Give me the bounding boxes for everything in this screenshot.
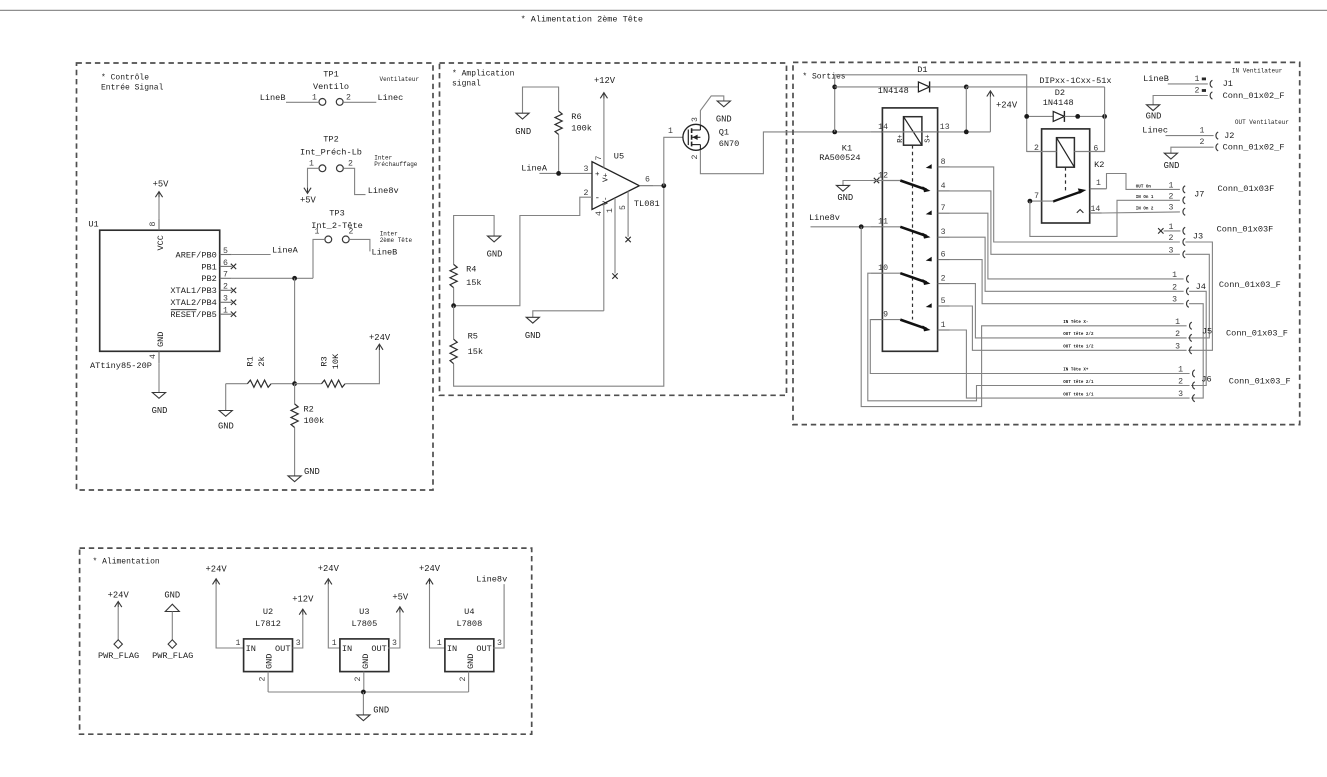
- K2 pin1: [1090, 188, 1107, 190]
- svg-text:IN: IN: [447, 644, 457, 654]
- svg-text:TP2: TP2: [323, 135, 338, 145]
- ground (Alimentation): [357, 715, 370, 721]
- resistor R2 100k: [294, 384, 296, 404]
- svg-text:+24V: +24V: [318, 564, 340, 574]
- svg-text:Line8v: Line8v: [476, 575, 507, 585]
- svg-text:GND: GND: [373, 705, 389, 715]
- svg-text:OUT tête 2/2: OUT tête 2/2: [1063, 332, 1094, 337]
- svg-text:2: 2: [1175, 330, 1180, 339]
- svg-text:8: 8: [149, 222, 158, 227]
- svg-text:11: 11: [878, 218, 888, 227]
- svg-text:2: 2: [1034, 144, 1039, 153]
- svg-text:6: 6: [223, 259, 228, 268]
- svg-text:D2: D2: [1055, 88, 1065, 98]
- svg-text:1: 1: [668, 127, 673, 136]
- svg-text:3: 3: [1175, 342, 1180, 351]
- U1 pin 3 XTAL2/PB4: [220, 301, 232, 303]
- top rail to K2 coil: [835, 75, 1042, 152]
- wire +24V to U2 IN: [216, 584, 244, 648]
- svg-text:1: 1: [941, 321, 946, 330]
- svg-text:OUT tête 2/1: OUT tête 2/1: [1063, 380, 1094, 385]
- wire K2 pin1 to J7 pin1: [1107, 174, 1180, 190]
- wire K1 pin4 to J3 pin3: [950, 191, 1180, 254]
- wire output to Q1 gate: [664, 137, 689, 185]
- svg-text:14: 14: [878, 123, 888, 132]
- svg-text:R3: R3: [320, 356, 330, 366]
- wire +24V node down to pin13 rail: [965, 87, 967, 132]
- svg-text:GND: GND: [164, 591, 180, 601]
- svg-text:3: 3: [941, 228, 946, 237]
- svg-text:2: 2: [1169, 234, 1174, 243]
- K1 NO pin 3: [938, 236, 950, 238]
- svg-text:RESET/PB5: RESET/PB5: [170, 310, 216, 320]
- svg-text:GND: GND: [156, 332, 166, 347]
- wire U2 OUT to +12V: [293, 614, 303, 648]
- ground left of R1: [225, 384, 227, 411]
- K1 switch common pin 11: [870, 226, 882, 228]
- svg-text:K2: K2: [1094, 160, 1104, 170]
- power +24V right of R3: [376, 344, 383, 350]
- svg-text:14: 14: [1091, 205, 1101, 214]
- svg-text:1: 1: [1195, 75, 1200, 84]
- svg-text:J7: J7: [1194, 190, 1204, 200]
- svg-text:6N70: 6N70: [719, 139, 740, 149]
- wire D2 row: [966, 86, 1104, 88]
- svg-text:Linec: Linec: [378, 93, 404, 103]
- svg-text:R+: R+: [897, 134, 905, 142]
- svg-text:+24V: +24V: [369, 333, 391, 343]
- svg-text:1: 1: [437, 639, 442, 648]
- section box Sorties: [793, 62, 1300, 424]
- svg-text:J5: J5: [1202, 326, 1212, 336]
- K1 switch arm 12-4: [900, 181, 926, 190]
- transistor Q1 6N70 mosfet: [683, 124, 709, 150]
- svg-text:4: 4: [149, 354, 158, 359]
- svg-text:2: 2: [349, 228, 354, 237]
- svg-text:GND: GND: [361, 654, 371, 669]
- svg-text:3: 3: [1172, 296, 1177, 305]
- power +5V above U1: [158, 197, 160, 219]
- svg-text:GND: GND: [716, 114, 732, 124]
- wire TP2.2 to Line8v: [343, 168, 365, 194]
- svg-text:L7808: L7808: [456, 619, 482, 629]
- resistor R5 15k: [453, 306, 455, 340]
- U1 pin 2 XTAL1/PB3: [220, 289, 232, 291]
- wire PB2 down to divider: [294, 278, 296, 383]
- wire R6 to LineA: [558, 135, 560, 174]
- diode D2 1N4148: [1053, 111, 1064, 121]
- svg-text:* Amplication: * Amplication: [452, 70, 515, 79]
- junction GND rail: [361, 690, 366, 695]
- K1 switch common pin 10: [870, 272, 882, 274]
- svg-text:1: 1: [235, 639, 240, 648]
- svg-text:Int_Préch-Lb: Int_Préch-Lb: [300, 147, 362, 157]
- wire K1 pin2 to J5 pin2: [950, 284, 1187, 338]
- connector J1: [1210, 80, 1212, 87]
- svg-text:+12V: +12V: [292, 595, 314, 605]
- svg-text:TP3: TP3: [329, 208, 344, 218]
- svg-text:10K: 10K: [331, 353, 341, 369]
- opamp pin1 no connect: [614, 198, 616, 273]
- resistor R6 100k: [555, 111, 562, 134]
- K1 NC pin 8: [938, 166, 950, 168]
- svg-text:AREF/PB0: AREF/PB0: [176, 250, 217, 260]
- no-connect X at K1 pin12: [874, 178, 879, 183]
- svg-text:GND: GND: [1164, 161, 1180, 171]
- power +12V (U2): [299, 609, 306, 615]
- svg-text:6: 6: [941, 251, 946, 260]
- svg-text:J4: J4: [1196, 282, 1206, 292]
- svg-text:R2: R2: [304, 405, 314, 415]
- K1 NO pin 4: [938, 190, 950, 192]
- svg-text:OUT: OUT: [476, 644, 491, 654]
- svg-text:PB2: PB2: [201, 274, 216, 284]
- svg-text:+5V: +5V: [153, 179, 170, 189]
- svg-text:3: 3: [1169, 204, 1174, 213]
- svg-text:GND: GND: [515, 127, 531, 137]
- svg-text:* Sorties: * Sorties: [802, 73, 845, 82]
- svg-text:1: 1: [315, 228, 320, 237]
- svg-text:1: 1: [606, 208, 615, 213]
- svg-text:+24V: +24V: [419, 564, 441, 574]
- svg-text:* Alimentation: * Alimentation: [93, 558, 160, 567]
- svg-text:L7805: L7805: [351, 619, 377, 629]
- regulator U2 L7812: [244, 639, 293, 672]
- wire link J4 pin3 to J6 pin3: [1189, 304, 1203, 398]
- svg-text:RA500524: RA500524: [819, 153, 860, 163]
- svg-text:IN Tête X+: IN Tête X+: [1063, 367, 1089, 372]
- junction pin14/D1: [832, 130, 837, 135]
- wire U1 GND down: [158, 363, 160, 392]
- svg-text:GND: GND: [152, 406, 168, 416]
- K1 NC pin 6: [938, 259, 950, 261]
- svg-text:2: 2: [346, 93, 351, 102]
- svg-text:IN: IN: [342, 644, 352, 654]
- svg-text:1N4148: 1N4148: [1043, 98, 1074, 108]
- svg-text:Conn_01x02_F: Conn_01x02_F: [1223, 91, 1285, 101]
- diode D1 1N4148: [918, 82, 929, 92]
- svg-text:GND: GND: [466, 654, 476, 669]
- wire U4 OUT to Line8v: [493, 584, 504, 648]
- K2 pin6: [1074, 151, 1104, 153]
- svg-text:IN: IN: [246, 644, 256, 654]
- svg-text:+24V: +24V: [996, 100, 1018, 110]
- svg-text:GND: GND: [837, 193, 853, 203]
- svg-text:+: +: [595, 171, 600, 179]
- svg-text:2: 2: [1169, 192, 1174, 201]
- svg-text:S+: S+: [924, 134, 932, 142]
- power +5V down: [304, 188, 311, 194]
- ground J2: [1164, 153, 1177, 159]
- connector J7: [1183, 186, 1185, 193]
- wire D1 cathode to +24V node: [930, 86, 967, 88]
- svg-text:R6: R6: [571, 112, 581, 122]
- wire hook R6 to GND: [523, 87, 559, 113]
- section box Amplication signal: [440, 63, 787, 395]
- K1 switch arm 11-3: [900, 227, 926, 236]
- K1 NC pin 5: [938, 305, 950, 307]
- svg-text:2: 2: [1178, 378, 1183, 387]
- junction divider: [292, 381, 297, 386]
- K2 NC mark: [1077, 210, 1084, 213]
- svg-text:2: 2: [258, 677, 267, 682]
- RESET overline: [171, 309, 197, 311]
- K2 coil: [1057, 138, 1075, 168]
- connector J4: [1187, 275, 1189, 282]
- wire +24V to U4 IN: [430, 584, 445, 648]
- svg-text:Conn_01x03_F: Conn_01x03_F: [1219, 280, 1281, 290]
- no-connect X pins PB1 XTAL1 XTAL2 RESET: [231, 264, 236, 269]
- wire R1 to junction: [271, 383, 295, 385]
- svg-text:+24V: +24V: [206, 565, 228, 575]
- power +24V (K1): [989, 96, 991, 132]
- svg-text:3: 3: [1169, 246, 1174, 255]
- svg-text:IN On 1: IN On 1: [1136, 196, 1154, 200]
- svg-text:2: 2: [1200, 138, 1205, 147]
- svg-text:J2: J2: [1224, 131, 1234, 141]
- wire D2 anode branch: [1027, 115, 1054, 117]
- svg-text:Conn_01x03F: Conn_01x03F: [1217, 225, 1274, 235]
- svg-text:R1: R1: [246, 356, 256, 366]
- K2 coil dashed line: [1065, 167, 1067, 193]
- wire D1 anode branch: [834, 75, 836, 132]
- wire R5 to output rail: [454, 186, 664, 387]
- svg-text:2ème Tête: 2ème Tête: [380, 237, 413, 244]
- svg-text:Préchauffage: Préchauffage: [374, 161, 418, 168]
- svg-text:PWR_FLAG: PWR_FLAG: [98, 651, 139, 661]
- wire K1 pin7 to J4 pin1: [950, 213, 1184, 279]
- svg-text:1: 1: [312, 93, 317, 102]
- wire Line8v to K1 pin11: [811, 226, 871, 228]
- svg-text:OUT tête 1/2: OUT tête 1/2: [1063, 345, 1094, 350]
- svg-text:GND: GND: [1146, 112, 1162, 122]
- svg-text:GND: GND: [487, 250, 503, 260]
- svg-text:LineA: LineA: [272, 245, 299, 255]
- svg-text:2: 2: [1172, 283, 1177, 292]
- svg-text:2: 2: [941, 275, 946, 284]
- svg-text:3: 3: [584, 165, 589, 174]
- svg-text:IN Ventilateur: IN Ventilateur: [1232, 67, 1283, 74]
- ground top left (R6): [516, 113, 529, 119]
- ground at K1 pin12: [836, 185, 849, 191]
- resistor R1 2k: [247, 380, 271, 387]
- ground below opamp: [526, 317, 539, 323]
- section box Alimentation: [80, 548, 532, 734]
- U1 pin 6 PB1: [220, 265, 232, 267]
- svg-text:6: 6: [645, 175, 650, 184]
- wire junction to R3: [295, 383, 322, 385]
- wire TP3.2 to LineB: [349, 239, 370, 251]
- svg-text:LineB: LineB: [1143, 74, 1169, 84]
- opamp pin4 V- down to GND: [603, 204, 605, 311]
- Q1 pin3 drain to GND: [700, 96, 723, 124]
- svg-text:+5V: +5V: [300, 196, 317, 206]
- svg-text:2: 2: [584, 189, 589, 198]
- svg-text:Conn_01x03_F: Conn_01x03_F: [1226, 329, 1288, 339]
- svg-text:3: 3: [296, 639, 301, 648]
- wire R4 to junction: [453, 288, 455, 306]
- svg-text:3: 3: [1178, 390, 1183, 399]
- svg-text:XTAL1/PB3: XTAL1/PB3: [170, 286, 216, 296]
- wire TP3.1 down to PB2 net: [313, 239, 325, 278]
- K1 switch common pin 9: [870, 319, 882, 321]
- svg-text:2: 2: [223, 283, 228, 292]
- wire LineA from U1.5: [232, 254, 271, 256]
- svg-text:LineB: LineB: [260, 93, 286, 103]
- wire to ground symbol: [362, 692, 364, 715]
- svg-text:Line8v: Line8v: [368, 186, 399, 196]
- svg-text:2: 2: [354, 677, 363, 682]
- junction PB2: [292, 276, 297, 281]
- wire Line8v to J5 pin1: [861, 227, 1186, 407]
- svg-text:GND: GND: [525, 331, 541, 341]
- wire TP1.2 to Linec: [343, 101, 376, 103]
- svg-text:TL081: TL081: [634, 199, 660, 209]
- U1 pin 7 PB2: [220, 277, 232, 279]
- wire U3 OUT to +5V: [388, 612, 400, 648]
- connector J6: [1193, 370, 1195, 377]
- svg-text:U4: U4: [464, 607, 474, 617]
- svg-text:7: 7: [1034, 192, 1039, 201]
- wire D2 cathode: [1064, 115, 1104, 117]
- svg-text:4: 4: [941, 182, 946, 191]
- svg-text:Ventilo: Ventilo: [313, 82, 349, 92]
- svg-text:IN Tête X-: IN Tête X-: [1063, 320, 1088, 325]
- K2 switch arm: [1053, 192, 1081, 202]
- wire LineB to J1 pin1: [1168, 83, 1208, 85]
- svg-text:4: 4: [595, 211, 604, 216]
- test point TP2: [319, 165, 326, 172]
- relay K2 DIPxx-1Cxx-51x body: [1042, 129, 1090, 223]
- svg-text:TP1: TP1: [323, 70, 338, 80]
- ground J1: [1147, 105, 1160, 111]
- wire link J4 pin2 to J6 pin2: [1189, 291, 1206, 385]
- wire R4 top to GND hook: [454, 216, 495, 265]
- regulator U3 L7805: [340, 639, 389, 672]
- wire K1 pin3 to J4 pin2: [950, 237, 1184, 291]
- svg-text:LineB: LineB: [372, 248, 398, 258]
- wire link J3 pin3 to J5 pin2: [1185, 254, 1209, 338]
- svg-text:L7812: L7812: [255, 619, 281, 629]
- wire GND to R1: [226, 383, 248, 385]
- svg-text:1: 1: [1175, 318, 1180, 327]
- svg-text:U1: U1: [88, 220, 98, 230]
- svg-text:13: 13: [940, 123, 950, 132]
- svg-text:VCC: VCC: [156, 235, 166, 250]
- section box Controle Entree Signal: [77, 63, 434, 490]
- svg-text:U5: U5: [614, 152, 624, 162]
- wire K1 pin8 to J3 pin2: [950, 167, 1180, 242]
- wire link J3 pin2 to J5 pin3: [1185, 242, 1212, 350]
- svg-text:1: 1: [1096, 179, 1101, 188]
- svg-text:3: 3: [497, 639, 502, 648]
- K1 NO pin 2: [938, 283, 950, 285]
- svg-text:DIPxx-1Cxx-51x: DIPxx-1Cxx-51x: [1039, 76, 1111, 86]
- svg-text:Entrée Signal: Entrée Signal: [101, 84, 164, 93]
- power +12V to opamp pin7: [603, 98, 605, 168]
- ground at Q1 drain: [717, 101, 730, 107]
- wire LineB to TP1.1: [286, 101, 319, 103]
- wire J1 pin2 to ground: [1153, 96, 1208, 105]
- wire R3 to +24V: [345, 350, 379, 384]
- svg-text:+5V: +5V: [392, 593, 409, 603]
- svg-text:Line8v: Line8v: [809, 213, 840, 223]
- svg-text:U3: U3: [359, 607, 369, 617]
- U4 pin2 GND: [468, 672, 470, 692]
- svg-text:1N4148: 1N4148: [878, 86, 909, 96]
- svg-text:10: 10: [878, 264, 888, 273]
- wire K1 pin12 to ground: [843, 181, 882, 186]
- wire D2 to K2 pin6: [1090, 87, 1105, 152]
- svg-text:D1: D1: [917, 65, 927, 75]
- wire LineA to opamp pin3: [539, 172, 592, 174]
- wire Linec to J2 pin1: [1166, 135, 1214, 137]
- ground below R2: [288, 476, 301, 482]
- test point TP1: [319, 99, 326, 106]
- svg-text:2: 2: [459, 677, 468, 682]
- wire K1 pin6 to J4 pin3: [950, 260, 1184, 304]
- svg-text:XTAL2/PB4: XTAL2/PB4: [170, 298, 216, 308]
- svg-text:1: 1: [332, 639, 337, 648]
- K2 pin7 common: [1030, 200, 1054, 202]
- GND rail of regulators: [268, 691, 469, 693]
- svg-text:GND: GND: [304, 467, 320, 477]
- opamp pin2 feedback wire: [454, 197, 592, 306]
- svg-text:Conn_01x03F: Conn_01x03F: [1218, 184, 1275, 194]
- junction output: [661, 183, 666, 188]
- svg-text:OUT Ventilateur: OUT Ventilateur: [1235, 119, 1289, 126]
- wire K2 pin14 to J7 pin3: [1102, 212, 1180, 213]
- svg-text:3: 3: [392, 639, 397, 648]
- wire D1 row left: [835, 86, 919, 88]
- svg-text:1: 1: [1169, 223, 1174, 232]
- svg-text:1: 1: [1178, 366, 1183, 375]
- wire K1 pin10 to J6 pin2: [868, 273, 1190, 401]
- svg-text:5: 5: [619, 205, 628, 210]
- svg-text:* Alimentation 2ème Tête: * Alimentation 2ème Tête: [521, 15, 643, 25]
- svg-text:1: 1: [1200, 127, 1205, 136]
- svg-text:* Contrôle: * Contrôle: [101, 74, 149, 83]
- svg-text:GND: GND: [218, 422, 234, 432]
- K1 NC pin 7: [938, 212, 950, 214]
- ground (R4 top): [488, 236, 501, 242]
- K2 pin2: [1027, 151, 1057, 153]
- svg-text:IN On 2: IN On 2: [1136, 208, 1154, 212]
- svg-text:-: -: [595, 193, 600, 203]
- svg-text:OUT: OUT: [275, 644, 290, 654]
- svg-text:7: 7: [223, 271, 228, 280]
- svg-text:R5: R5: [468, 332, 478, 342]
- wire K1 pin5 to J5 pin3: [950, 306, 1187, 350]
- svg-text:OUT: OUT: [371, 644, 386, 654]
- svg-text:Ventilateur: Ventilateur: [380, 76, 420, 83]
- svg-text:2: 2: [348, 160, 353, 169]
- wire K1 pin14 rail: [870, 131, 882, 133]
- U1 pin 1 RESET/PB5: [220, 313, 232, 315]
- K2 pin14: [1090, 212, 1102, 214]
- op-amp U5 TL081 triangle: [592, 162, 639, 210]
- relay K1 RA500524 body: [882, 108, 937, 351]
- svg-text:PB1: PB1: [201, 262, 216, 272]
- svg-text:J6: J6: [1201, 375, 1211, 385]
- opamp pin5 no connect: [627, 191, 629, 237]
- svg-text:1: 1: [1169, 181, 1174, 190]
- K1 switch arm 9-1: [900, 320, 926, 329]
- svg-text:+12V: +12V: [594, 76, 616, 86]
- Q1 pin2 source wire to K1: [700, 132, 870, 174]
- svg-text:LineA: LineA: [521, 163, 548, 173]
- svg-text:5: 5: [223, 247, 228, 256]
